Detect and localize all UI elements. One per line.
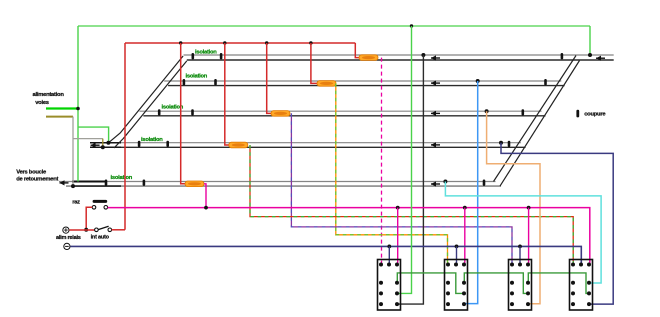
node: red bus junction 4 [309,41,312,44]
node: track C rail tap [485,109,489,113]
isolation gap track B far right [544,79,547,85]
wire: track C rail to relay K3 (tan) [487,111,540,304]
wire: magenta drop to relay K2 [464,208,466,265]
wire: red feeder bus left vertical [124,43,126,230]
wire: detection track D to relay K4 (red) [250,145,573,265]
wire: red drop to lamp L4 track D [225,43,229,145]
node: navy tap relay K1 [387,245,391,249]
wire: green branch to track D [78,127,109,143]
node: magenta tap relay K1 [396,206,400,210]
wire: grey branch toward track D [73,138,103,140]
wire: track D lower rail [90,146,526,148]
wire: green chain K3 to K4 [528,273,589,294]
wire: magenta relay bus [108,208,590,265]
svg-text:isolation: isolation [186,74,208,80]
isolation gap track B right [214,79,217,85]
wire: red drop to lamp L5 track E [181,43,185,184]
node: track D rail tap [499,141,503,145]
wire: track E lower rail black section [72,185,121,187]
node: navy tap relay K3 [518,245,522,249]
switch int auto lever [98,226,108,229]
wire: olive-grey vertical to track E [72,117,74,187]
wire: right ladder rail 2 [500,61,580,187]
switch int auto right terminal [108,228,112,232]
wire: green chain K1 to K2 [397,273,464,294]
wire: left ladder rail 1 [108,56,183,143]
wire: magenta from lamp L5 [204,184,206,208]
push-button raz right terminal [104,206,108,210]
wire: olive drop to track D rail [102,139,104,148]
wire: right ladder rail 1 [494,56,577,182]
battery terminal plus [63,227,69,233]
wire: navy drop to relay K2 [456,246,458,264]
wire: olive alimentation lead [46,116,73,118]
arrow track D left [91,143,100,148]
arrow track D right [431,142,440,147]
wire: track D upper rail black section [90,142,121,144]
relay K4 [570,260,593,311]
wire: detection track B to relay K2 (orange) [336,83,448,264]
wire: track E rail to relay K4 (cyan) [445,182,601,284]
svg-text:isolation: isolation [195,49,217,55]
wire: detection track A to relay K1 (magenta dashed) [381,58,383,265]
wire: detection track C to relay K3 (purple) [291,113,512,264]
wire: track B rail to relay K2 (blue) [465,81,478,304]
node: olive to track E rail [71,184,75,188]
wire: track D lower rail black section [90,146,121,148]
wire: magenta drop to relay K3 [528,208,530,265]
wire: navy drop to relay K3 [519,246,521,264]
wire: magenta drop to relay K1 [397,208,399,265]
wire: track C upper rail [140,110,542,112]
isolation gap track E far right [483,180,486,186]
arrow track C [431,111,440,116]
node: olive to track D rail [101,145,105,149]
relay K3 [509,260,532,311]
arrow track E left [60,180,69,185]
node: red junction at int auto [84,228,88,232]
node: green lead junction [76,107,80,111]
wire: green alimentation lead [46,107,78,109]
wire: red drop to lamp L1 track A [355,43,359,58]
wire: green bus right vertical to track A [589,26,591,55]
coupure gap symbol [576,110,579,118]
wire: red feeder bus horizontal [125,42,355,44]
node: track A rail tap [421,53,425,57]
svg-text:raz: raz [72,199,80,205]
isolation gap track D right [166,141,169,147]
lamp L2 track B [317,81,336,87]
lamp L3 track C [271,111,290,117]
lamp L5 track E [185,181,204,187]
arrow track E right [431,181,440,186]
wire: green bus top horizontal [78,25,590,27]
isolation gap track C far right [522,109,525,115]
isolation gap track A far right [561,53,564,59]
wire: track B upper rail [164,80,561,82]
arrow track A right [596,56,605,61]
svg-text:de retournement: de retournement [16,177,58,183]
isolation gap track E left [105,180,108,186]
isolation gap track E right [143,180,146,186]
svg-text:alim relais: alim relais [56,235,81,241]
isolation gap track C left [158,109,161,115]
wire: green supply to relay K1 contact [398,26,412,293]
wire: track D rail to relay K4 (dark blue) [501,143,613,304]
battery terminal minus [64,243,70,249]
svg-text:Vers boucle: Vers boucle [16,170,47,176]
push-button raz left terminal [92,206,96,210]
node: red bus junction 3 [265,41,268,44]
wire: red drop to lamp L3 track C [267,43,271,113]
wire: track E upper rail black section [72,181,106,183]
wire: track E lower rail [66,185,501,187]
isolation gap track C right [191,109,194,115]
node: magenta tap relay K2 [463,206,467,210]
node: magenta tap relay K3 [527,206,531,210]
push-button raz cap [93,200,108,203]
svg-text:int auto: int auto [91,235,110,241]
wire: detection track C to relay K3 (blue dash overlay) [291,113,512,264]
wire: red from plus terminal [69,229,94,231]
wire: detection track D to relay K4 (green dash overlay) [250,145,573,265]
node: navy tap relay K2 [455,245,459,249]
wire: track A lower rail [187,59,614,61]
svg-text:coupure: coupure [584,112,606,118]
wire: red from int auto to bus [112,229,125,231]
isolation gap track D left [138,141,141,147]
wire: track A rail to relay K1 (black) [398,55,423,304]
svg-text:alimentation: alimentation [33,92,65,98]
wire: track E upper rail [59,181,496,183]
svg-text:isolation: isolation [141,137,163,143]
node: green bus tap for relay K1 [410,24,413,27]
node: magenta junction lamp L5 [204,206,208,210]
svg-text:isolation: isolation [111,175,133,181]
arrow track B [431,81,440,86]
node: red bus junction 1 [179,41,182,44]
node: track E rail tap [443,180,447,184]
wire: detection track B to relay K2 (green dash overlay) [336,83,448,264]
isolation gap track A left [192,53,195,59]
wire: red raz branch [86,207,92,230]
isolation gap track A right [220,53,223,59]
node: green to track A rail [588,53,592,57]
wire: track A upper rail [184,54,614,56]
wire: navy drop to relay K1 [388,246,390,264]
wire: red drop to lamp L2 track B [311,43,317,83]
svg-text:voies: voies [35,100,49,106]
wire: track D upper rail [90,142,521,144]
relay K2 [445,260,468,311]
node: red bus junction 2 [223,41,226,44]
lamp L4 track D [229,142,248,148]
node: track B rail tap [476,79,480,83]
wire: track B lower rail [168,85,565,87]
isolation gap track D far right [508,141,511,147]
lamp L1 track A [359,55,378,61]
wire: green bus left vertical to track E [77,26,79,182]
isolation gap track B left [183,79,186,85]
wire: navy relay coil bus [70,246,581,264]
node: green to track D rail [106,141,110,145]
switch int auto left terminal [95,228,99,232]
wire: left ladder rail 2 [114,61,187,148]
relay K1 [378,260,401,311]
wire: green chain K2 to K3 [464,273,528,294]
wire: track C lower rail [143,115,545,117]
arrow track A middle [431,55,440,60]
